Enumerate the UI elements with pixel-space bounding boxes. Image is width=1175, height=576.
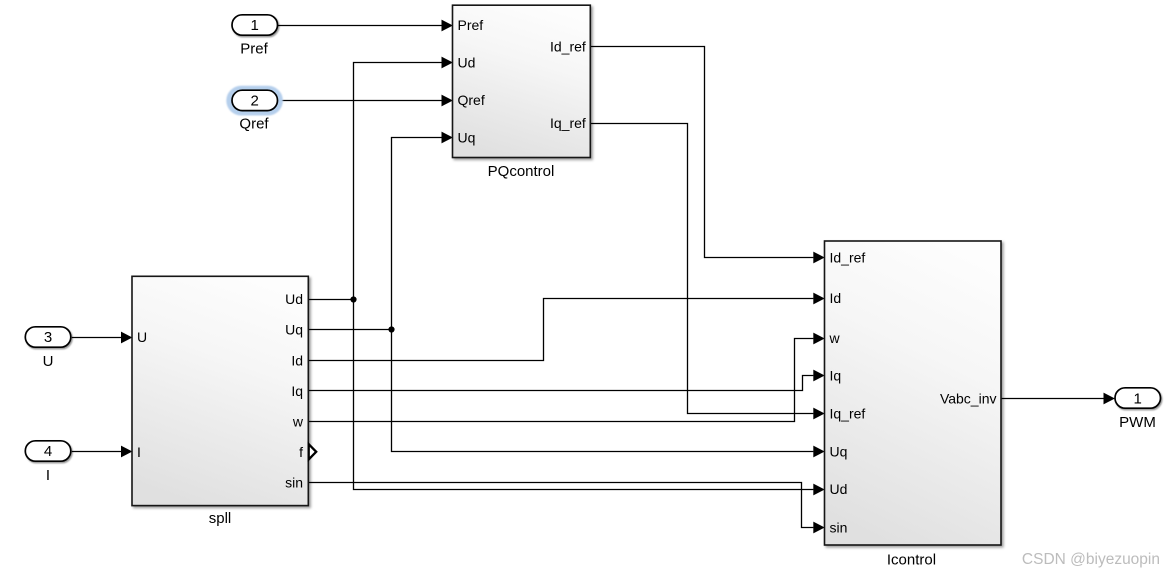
wire U: Inport3 to spll.U bbox=[72, 332, 133, 344]
svg-text:Pref: Pref bbox=[458, 17, 484, 33]
svg-text:sin: sin bbox=[830, 520, 848, 536]
svg-text:I: I bbox=[137, 444, 141, 460]
svg-text:PQcontrol: PQcontrol bbox=[488, 163, 555, 180]
junction dot on net Ud bbox=[350, 296, 356, 302]
svg-text:Id_ref: Id_ref bbox=[830, 250, 866, 266]
svg-text:PWM: PWM bbox=[1119, 414, 1156, 431]
wire segment: Ud junction up and right into PQcontrol.Ud (arrowhead) bbox=[354, 57, 453, 300]
inport 2 Qref (selected, blue halo) bbox=[226, 86, 283, 133]
svg-text:Iq: Iq bbox=[291, 383, 303, 399]
svg-text:U: U bbox=[43, 353, 54, 370]
svg-text:w: w bbox=[292, 414, 304, 430]
svg-text:Iq: Iq bbox=[830, 367, 842, 383]
inport 4 I bbox=[25, 441, 71, 484]
svg-text:Ud: Ud bbox=[458, 55, 476, 71]
wire Pref: Inport1 to PQcontrol.Pref bbox=[278, 20, 453, 32]
wire Vabc_inv: Icontrol.Vabc_inv to Outport PWM bbox=[1001, 393, 1115, 405]
svg-text:w: w bbox=[829, 330, 841, 346]
svg-text:Iq_ref: Iq_ref bbox=[550, 115, 586, 131]
inport 1 Pref bbox=[232, 15, 278, 58]
wire I: Inport4 to spll.I bbox=[72, 446, 133, 458]
svg-text:Icontrol: Icontrol bbox=[887, 552, 936, 569]
wire segment: Uq junction down and right into Icontrol.Uq (arrowhead) bbox=[392, 330, 825, 458]
svg-text:3: 3 bbox=[44, 329, 52, 346]
svg-text:1: 1 bbox=[251, 17, 259, 34]
subsystem block Icontrol (body) bbox=[825, 241, 1002, 569]
svg-text:Uq: Uq bbox=[458, 130, 476, 146]
unconnected output port marker f bbox=[309, 444, 317, 459]
svg-text:1: 1 bbox=[1134, 390, 1142, 407]
svg-text:U: U bbox=[137, 329, 147, 345]
svg-text:4: 4 bbox=[44, 443, 52, 460]
wire segment: spll.Ud output to junction bbox=[308, 299, 354, 301]
svg-text:CSDN @biyezuopin: CSDN @biyezuopin bbox=[1022, 551, 1160, 568]
wire Id: spll.Id to Icontrol.Id bbox=[308, 293, 825, 361]
svg-text:Id: Id bbox=[291, 352, 303, 368]
wire segment: Uq junction up and right into PQcontrol.Uq (arrowhead) bbox=[392, 132, 453, 330]
wire Id_ref: PQcontrol.Id_ref to Icontrol.Id_ref bbox=[590, 47, 825, 264]
subsystem block spll (body) bbox=[132, 276, 308, 527]
svg-text:Iq_ref: Iq_ref bbox=[830, 406, 866, 422]
svg-text:Ud: Ud bbox=[285, 291, 303, 307]
wire Iq_ref: PQcontrol.Iq_ref to Icontrol.Iq_ref bbox=[590, 124, 825, 420]
svg-text:Pref: Pref bbox=[240, 40, 268, 57]
svg-text:Uq: Uq bbox=[285, 322, 303, 338]
svg-text:2: 2 bbox=[251, 93, 259, 110]
svg-text:I: I bbox=[46, 467, 50, 484]
wire w: spll.w to Icontrol.w bbox=[308, 333, 825, 422]
svg-text:spll: spll bbox=[209, 510, 232, 527]
outport 1 PWM bbox=[1115, 388, 1161, 431]
svg-text:Ud: Ud bbox=[830, 481, 848, 497]
wire sin: spll.sin to Icontrol.sin bbox=[308, 483, 825, 534]
svg-text:Id: Id bbox=[830, 290, 842, 306]
wire Iq: spll.Iq to Icontrol.Iq bbox=[308, 370, 825, 391]
svg-text:Vabc_inv: Vabc_inv bbox=[940, 390, 997, 406]
wire segment: Ud junction down and right into Icontrol.Ud (arrowhead) bbox=[354, 300, 825, 496]
subsystem block PQcontrol (body) bbox=[453, 5, 591, 180]
inport 3 U bbox=[25, 327, 71, 370]
svg-text:sin: sin bbox=[285, 475, 303, 491]
svg-text:f: f bbox=[299, 444, 303, 460]
svg-text:Qref: Qref bbox=[239, 116, 269, 133]
wire Qref: Inport2 to PQcontrol.Qref bbox=[278, 95, 453, 107]
svg-text:Uq: Uq bbox=[830, 444, 848, 460]
junction dot on net Uq bbox=[388, 326, 394, 332]
wire segment: spll.Uq output to junction bbox=[308, 329, 392, 331]
svg-text:Id_ref: Id_ref bbox=[550, 39, 586, 55]
svg-text:Qref: Qref bbox=[458, 92, 485, 108]
